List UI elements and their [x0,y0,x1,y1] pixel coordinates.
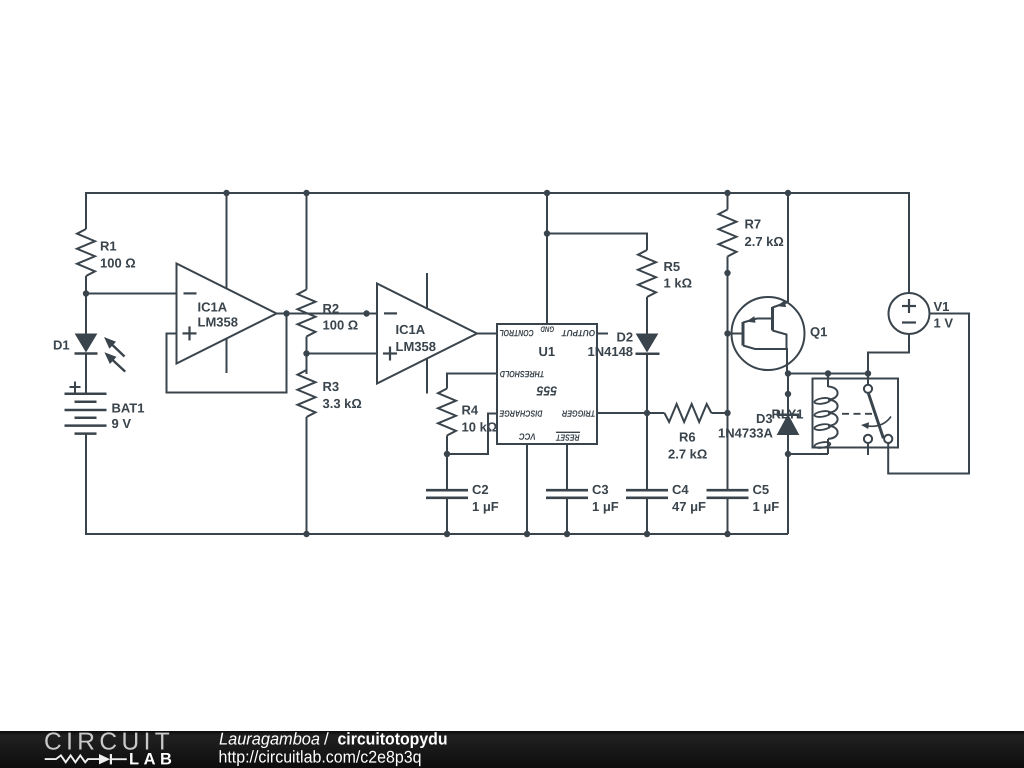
wire base node to trigger node [727,334,729,414]
zener diode D3 1N4733A [718,394,799,454]
svg-text:D1: D1 [53,338,70,353]
node GND pin on rail [544,190,550,196]
resistor R3 [298,370,362,417]
svg-text:R2: R2 [322,301,339,316]
svg-text:R6: R6 [679,430,696,445]
svg-text:BAT1: BAT1 [111,401,144,416]
wire BAT1 to bottom rail [85,434,87,534]
svg-text:GND: GND [540,324,554,333]
svg-text:V1: V1 [933,299,949,314]
svg-text:1 μF: 1 μF [752,499,779,514]
transistor Q1 (PNP darlington) [728,297,828,370]
svg-text:THRESHOLD: THRESHOLD [499,369,544,379]
node C4 on bottom rail [644,531,650,537]
svg-text:C3: C3 [592,482,609,497]
wire D3 cathode lead [787,374,789,395]
svg-text:http://circuitlab.com/c2e8p3q: http://circuitlab.com/c2e8p3q [218,748,421,767]
node R2/R3 junction [303,350,309,356]
node VCC on bottom rail [524,531,530,537]
svg-text:2.7 kΩ: 2.7 kΩ [668,447,707,462]
wire 555 OUTPUT stub [597,333,608,335]
node trigger row / C5 [724,410,730,416]
node C2 on bottom rail [444,531,450,537]
node TRIGGER/D2/C4 junction [644,410,650,416]
op-amp IC1A first stage [177,264,277,364]
capacitor C5 [707,413,780,534]
svg-text:1N4733A: 1N4733A [718,426,774,441]
node collector/relay junction [785,370,791,376]
voltage source V1 [889,293,954,334]
node R4/DISCHARGE/C2 junction [444,451,450,457]
resistor R6 [647,404,728,462]
wire VCC pin to bottom rail [526,444,528,534]
wire R4 bottom lead [446,436,448,455]
wire top power rail [86,192,909,194]
svg-text:9 V: 9 V [111,416,131,431]
svg-text:RLY1: RLY1 [771,407,803,422]
wire switch right contact to V1 return [888,314,969,474]
svg-text:circuitotopydu: circuitotopydu [337,730,447,749]
svg-text:LM358: LM358 [197,315,237,330]
svg-text:/: / [324,730,329,749]
node R5 branch on GND wire [544,230,550,236]
wire V1 negative to relay [868,334,909,374]
wire TRIGGER to D2 column [597,412,647,414]
battery BAT1 [65,382,145,434]
wire THRESHOLD to R4 [447,374,497,389]
node IC1A output/feedback [283,310,289,316]
svg-text:R7: R7 [744,217,761,232]
resistor R1 [77,229,136,276]
svg-text:VCC: VCC [519,432,536,442]
wire R7 column to Q1 base node [727,273,729,334]
svg-text:100 Ω: 100 Ω [100,256,136,271]
node D3 bottom / coil return [785,451,791,457]
wire Q1 emitter to top rail [787,193,789,302]
svg-text:10 kΩ: 10 kΩ [461,420,497,435]
svg-text:Q1: Q1 [810,324,827,339]
svg-text:Lauragamboa: Lauragamboa [219,730,320,749]
IC U1 555 timer (rotated 180) [497,324,597,444]
svg-text:R4: R4 [461,403,478,418]
wire IC2 V- stub [426,359,428,394]
node Q1 base junction [724,330,730,336]
resistor R4 [438,389,497,436]
wire D1 anode lead [85,294,87,336]
wire R5 branch [547,234,647,251]
wire R7 top lead [727,193,729,210]
resistor R2 [298,290,359,337]
wire R2 top lead [306,193,308,290]
svg-text:RESET: RESET [555,433,580,443]
wire bottom rail [85,533,788,535]
wire D3 column to bottom rail [787,454,789,534]
node C5 on bottom rail [724,531,730,537]
wire 555 GND pin to top rail [546,193,548,324]
node on R7 column [724,270,730,276]
wire DISCHARGE loop [447,414,497,455]
wire Q1 collector down [786,349,788,374]
capacitor C2 [426,454,499,534]
wire IC1A output to IC2 inverting input [277,313,378,315]
svg-text:LAB: LAB [129,750,176,768]
resistor R5 [638,250,692,297]
svg-text:DISCHARGE: DISCHARGE [499,408,543,418]
svg-text:R5: R5 [663,259,680,274]
svg-text:100 Ω: 100 Ω [322,318,358,333]
node V+ stub on rail [223,190,229,196]
svg-text:555: 555 [536,384,557,399]
node D3 top [785,391,791,397]
wire D1 to BAT1 [85,354,87,395]
svg-text:C5: C5 [752,482,769,497]
svg-text:1 μF: 1 μF [592,499,619,514]
wire IC1A V+ stub to rail [226,193,228,289]
wire divider junction to IC2 + input [307,353,378,355]
op-amp IC1A second stage [377,284,477,384]
node relay coil top [825,370,831,376]
capacitor C4 [626,413,706,534]
wire R5 to D2 [646,297,648,335]
svg-text:47 μF: 47 μF [672,499,706,514]
wire R3 top lead [306,354,308,375]
resistor R7 [719,210,784,257]
wire left column rail to R1 [85,192,87,229]
wire R2 bottom lead [306,337,308,354]
wire IC2 output to 555 CONTROL [477,333,497,335]
wire V1 top drop [908,192,910,294]
svg-text:LM358: LM358 [395,339,435,354]
node R2 top on rail [303,190,309,196]
svg-text:1 kΩ: 1 kΩ [663,276,692,291]
svg-text:D3: D3 [756,411,773,426]
svg-text:IC1A: IC1A [197,300,227,315]
svg-text:1 V: 1 V [933,316,953,331]
node R7 top on rail [724,190,730,196]
svg-text:C2: C2 [472,482,489,497]
svg-text:C4: C4 [672,482,689,497]
svg-text:R3: R3 [322,379,339,394]
node R3 on bottom rail [303,531,309,537]
wire IC1A V- stub [226,339,228,374]
svg-text:U1: U1 [538,344,555,359]
svg-text:1N4148: 1N4148 [587,344,633,359]
svg-text:IC1A: IC1A [395,322,425,337]
wire collector node to relay top [788,373,868,375]
wire IC2 V+ stub [426,273,428,309]
svg-text:2.7 kΩ: 2.7 kΩ [744,234,783,249]
svg-text:D2: D2 [616,330,633,345]
node Q1 emitter on rail [785,190,791,196]
svg-text:CONTROL: CONTROL [499,328,533,338]
wire switch left contact stub [867,443,869,455]
svg-text:R1: R1 [100,239,117,254]
node switch arm top [865,370,871,376]
diode D2 1N4148 [587,330,659,360]
wire R1 to D1 [85,276,87,294]
footer bar [0,731,1024,768]
svg-text:OUTPUT: OUTPUT [561,328,596,338]
svg-text:3.3 kΩ: 3.3 kΩ [322,396,361,411]
wire IC1A feedback loop [167,314,287,393]
svg-text:1 μF: 1 μF [472,499,499,514]
wire IC1A inverting input [86,293,177,295]
wire coil return [788,453,828,455]
node C3 on bottom rail [564,531,570,537]
svg-text:TRIGGER: TRIGGER [562,408,596,418]
footer logo schematic doodle [45,754,127,764]
wire D2 to trigger row [646,354,648,413]
wire R3 bottom lead [306,417,308,534]
relay RLY1 [771,374,898,455]
photodiode D1 [53,334,125,372]
node R1/D1 junction [83,290,89,296]
wire R7 bottom lead [727,257,729,274]
capacitor C3 [546,444,619,534]
node on output wire [363,310,369,316]
